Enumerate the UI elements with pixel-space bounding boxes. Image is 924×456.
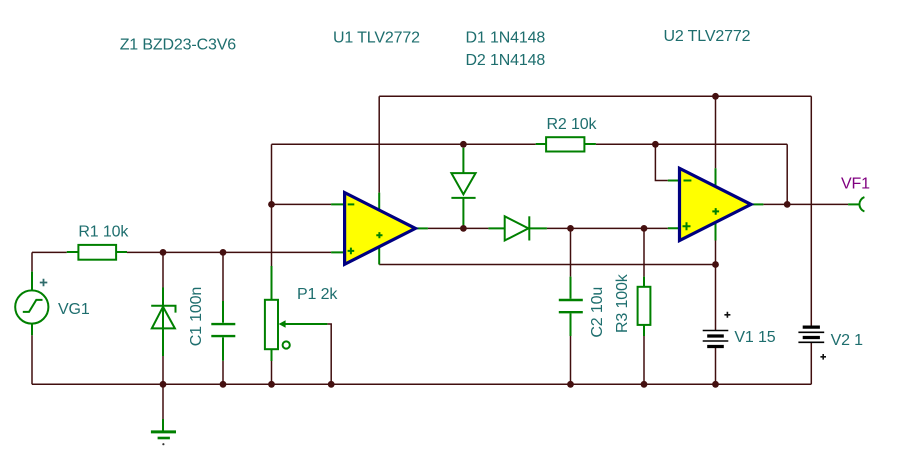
wire VG1 to R1 bbox=[32, 251, 67, 253]
svg-text:VG1: VG1 bbox=[58, 301, 90, 318]
svg-text:V1 15: V1 15 bbox=[734, 329, 775, 346]
wire U1 bottom rail bbox=[379, 264, 715, 266]
diode D1 bbox=[451, 148, 475, 225]
svg-text:D1 1N4148: D1 1N4148 bbox=[466, 29, 546, 46]
node Z1 top bbox=[160, 249, 167, 256]
wire U2 power top drop bbox=[715, 96, 717, 168]
node C2 tap bbox=[567, 225, 574, 232]
output terminal VF1 bbox=[848, 197, 864, 211]
potentiometer P1 bbox=[265, 266, 328, 361]
node Z1 bottom bbox=[160, 381, 167, 388]
node wiper bottom bbox=[328, 381, 335, 388]
wire U1 output to D2 bbox=[428, 227, 489, 229]
ground bbox=[151, 419, 176, 445]
wire Z1 bottom bbox=[162, 356, 164, 384]
node U1 inv branch bbox=[268, 201, 275, 208]
node C1 bottom bbox=[220, 381, 227, 388]
wire Z1 top bbox=[162, 252, 164, 287]
resistor R3 bbox=[638, 277, 651, 336]
node D1 anode bbox=[460, 141, 467, 148]
wire top rail bbox=[379, 95, 811, 97]
zener Z1 bbox=[151, 288, 175, 357]
wire U2 inverting branch bbox=[655, 144, 667, 180]
node U1 out D1 bbox=[460, 225, 467, 232]
wire V2 bottom bbox=[810, 342, 812, 384]
node V1 top bbox=[712, 261, 719, 268]
wire U1 power top drop bbox=[378, 96, 380, 192]
battery V2 bbox=[798, 327, 826, 360]
wire C2 bottom bbox=[570, 336, 572, 384]
wire U2 output to VF1 bbox=[763, 203, 848, 205]
wire U1 inverting input bbox=[272, 203, 332, 205]
wire U2 below to V1 bbox=[715, 241, 717, 331]
node R3 tap bbox=[641, 225, 648, 232]
wire ground stub bbox=[162, 384, 164, 419]
svg-text:D2 1N4148: D2 1N4148 bbox=[466, 52, 546, 69]
wire R3 bottom bbox=[643, 336, 645, 384]
svg-text:U2 TLV2772: U2 TLV2772 bbox=[664, 28, 751, 45]
resistor R1 bbox=[67, 245, 127, 260]
svg-text:U1 TLV2772: U1 TLV2772 bbox=[333, 30, 420, 47]
wire D1 bottom tail bbox=[462, 225, 464, 228]
svg-text:R3 100k: R3 100k bbox=[614, 273, 631, 333]
wire feedback drop to output bbox=[786, 144, 788, 204]
wire VG1 bottom bbox=[31, 335, 33, 384]
battery V1 bbox=[703, 312, 731, 347]
svg-text:R2 10k: R2 10k bbox=[547, 116, 598, 133]
wire C1 top bbox=[222, 252, 224, 301]
node R3 bottom bbox=[641, 381, 648, 388]
wire feedback rail left bbox=[272, 143, 536, 145]
svg-text:Z1 BZD23-C3V6: Z1 BZD23-C3V6 bbox=[120, 37, 237, 54]
wire C2 top bbox=[570, 228, 572, 276]
svg-text:VF1: VF1 bbox=[841, 176, 870, 193]
svg-text:V2 1: V2 1 bbox=[831, 332, 864, 349]
wire R3 top bbox=[643, 228, 645, 276]
wire feedback rail right bbox=[596, 143, 787, 145]
wire C1 bottom bbox=[222, 361, 224, 385]
resistor R2 bbox=[536, 137, 596, 151]
node P1 bottom bbox=[268, 381, 275, 388]
capacitor C2 bbox=[559, 277, 583, 336]
svg-text:C2 10u: C2 10u bbox=[589, 287, 606, 338]
wire bottom rail bbox=[32, 383, 811, 385]
node V1 bottom bbox=[712, 381, 719, 388]
svg-text:P1 2k: P1 2k bbox=[297, 286, 338, 303]
op-amp U2 bbox=[668, 168, 764, 240]
wire P1 bottom bbox=[271, 361, 273, 384]
svg-text:R1 10k: R1 10k bbox=[78, 223, 129, 240]
svg-text:C1 100n: C1 100n bbox=[188, 287, 205, 346]
source VG1 bbox=[15, 272, 48, 336]
node output junction bbox=[784, 201, 791, 208]
wire left feedback vertical bbox=[271, 144, 273, 266]
wire P1 wiper drop bbox=[327, 324, 331, 384]
op-amp U1 bbox=[331, 193, 428, 265]
node C2 bottom bbox=[567, 381, 574, 388]
node rail-U2 top bbox=[712, 93, 719, 100]
wire R1 to U1 noninverting bbox=[127, 251, 331, 253]
node C1 top bbox=[220, 249, 227, 256]
wire D2 to U2 noninverting bbox=[547, 227, 668, 229]
wire VG1 top drop bbox=[31, 252, 33, 271]
diode D2 bbox=[488, 216, 547, 240]
capacitor C1 bbox=[211, 301, 235, 361]
node U2 inv branch bbox=[652, 141, 659, 148]
wire V1 bottom bbox=[715, 347, 717, 385]
wire V2 right drop bbox=[810, 96, 812, 327]
